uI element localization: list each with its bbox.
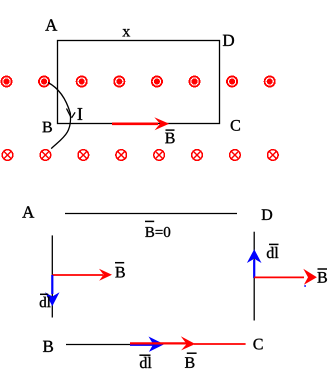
wire: Amperian rectangular loop ABCD [58, 41, 220, 124]
wire: segment AD (top side, lower diagram) [65, 213, 237, 215]
field symbol: B into page cross 5 [154, 150, 165, 161]
field symbol: B out of page dot 4 [114, 76, 124, 86]
field symbol: B into page cross 3 [78, 150, 89, 161]
node A (top-left corner label of Amperian loop) [45, 19, 57, 30]
label dl-bar (left side) [40, 294, 51, 307]
node C (lower diagram) [253, 339, 262, 350]
field symbol: B into page cross 6 [192, 150, 203, 161]
field symbol: B out of page dot 2 [39, 76, 49, 86]
node D (top-right corner label) [223, 35, 234, 46]
vector arrow B on left side (lower diagram) [52, 269, 112, 281]
field symbol: B out of page dot 5 [152, 76, 162, 86]
label dl-bar (bottom) [139, 355, 151, 368]
vector arrow dl downward on left side [45, 275, 59, 306]
label x (top edge length) [122, 29, 130, 36]
label B-bar (left side) [115, 263, 125, 278]
label B-bar under arrow (top diagram) [165, 130, 174, 143]
wire: segment AB (left side, lower diagram) [51, 235, 53, 317]
label B-bar (bottom) [185, 353, 197, 368]
label dl-bar (right side) [267, 244, 279, 258]
field symbol: B out of page dot 8 [265, 76, 275, 86]
field symbol: B into page cross 4 [116, 150, 127, 161]
label B-bar (right side) [317, 269, 327, 283]
vector arrow dl along BC [130, 337, 164, 352]
node D (lower diagram) [262, 209, 272, 220]
node B (lower diagram) [43, 341, 53, 352]
wire: segment DC (right side, lower diagram) [253, 232, 255, 321]
vector arrow B along BC inside loop (top diagram) [112, 117, 169, 130]
field symbol: B out of page dot 7 [227, 76, 237, 86]
field symbol: B out of page dot 3 [77, 76, 87, 86]
vector arrow B on right side (lower diagram) [254, 269, 317, 285]
wire: solenoid coil turn (curved wire from upper dot 2 to lower cross 2) [48, 83, 71, 149]
node B (bottom-left corner label) [42, 122, 51, 133]
field symbol: B into page cross 2 [40, 150, 51, 161]
vector arrow dl upward on right side [247, 249, 262, 278]
field symbol: B into page cross 7 [230, 150, 241, 161]
node A (lower diagram) [22, 206, 34, 217]
field symbol: B into page cross 1 [2, 150, 13, 161]
label I (current) [78, 108, 83, 120]
field symbol: B out of page dot 6 [189, 76, 199, 86]
label B-bar = 0 (no field outside solenoid) [145, 221, 170, 237]
field symbol: B out of page dot 1 [1, 76, 11, 86]
vector arrow B along BC (lower diagram) [130, 336, 246, 350]
stray blue mark near right B arrow [304, 285, 306, 287]
current direction arrowhead on coil wire [67, 109, 76, 118]
node C (bottom-right corner label) [231, 120, 240, 131]
wire: segment BC (bottom side, lower diagram) [66, 344, 131, 346]
field symbol: B into page cross 8 [268, 150, 279, 161]
